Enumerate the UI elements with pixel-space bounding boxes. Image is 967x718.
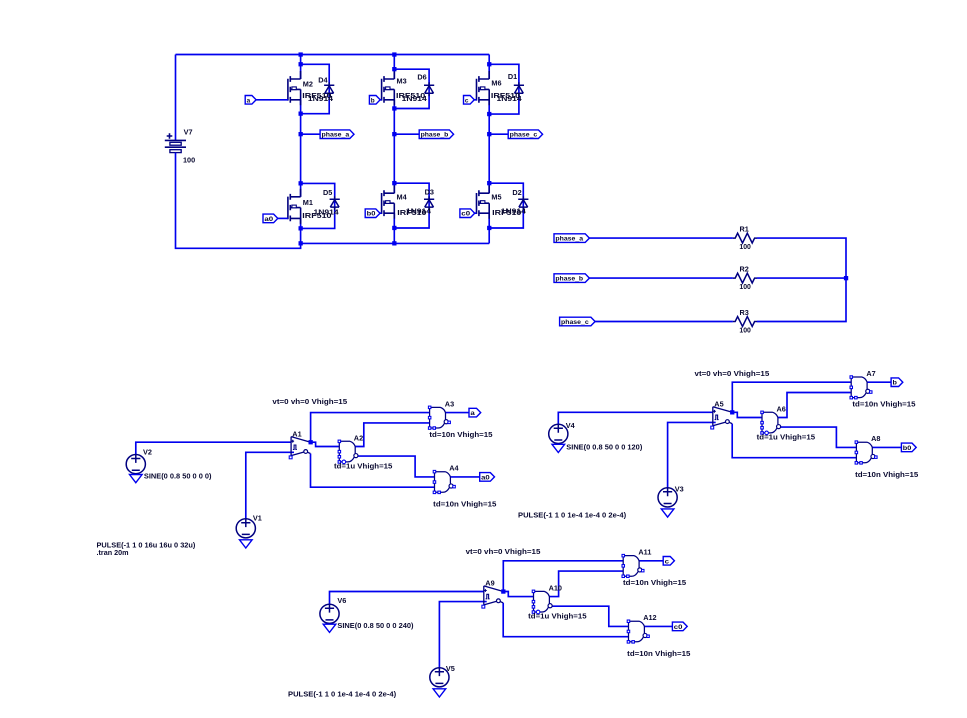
node b output flag (891, 378, 903, 387)
wire gate M4 (380, 212, 382, 214)
svg-text:phase_c: phase_c (510, 132, 538, 139)
node phase_a (320, 130, 354, 139)
transistor M5 (477, 185, 490, 219)
voltage source V6 (sine) (320, 604, 339, 623)
svg-text:A3: A3 (445, 399, 454, 408)
svg-text:PULSE(-1 1 0 1e-4 1e-4 0 2e-4): PULSE(-1 1 0 1e-4 1e-4 0 2e-4) (518, 510, 627, 519)
gate A8 (AND td=10n) (855, 441, 877, 464)
svg-text:D4: D4 (318, 76, 328, 85)
svg-text:V1: V1 (253, 513, 262, 522)
wire R3 to bus (757, 278, 846, 321)
transistor M2 (288, 71, 301, 105)
comparator A9 (schmitt) (482, 586, 503, 608)
wire phase_c (489, 133, 508, 135)
transistor M3 (382, 71, 395, 105)
svg-text:100: 100 (739, 282, 751, 291)
resistor R1 (733, 233, 757, 243)
svg-text:R3: R3 (740, 308, 749, 317)
wire A1 Qbar to A4 (311, 454, 435, 488)
junctions (487, 62, 491, 66)
svg-text:td=10n Vhigh=15: td=10n Vhigh=15 (623, 578, 686, 587)
resistor R2 (733, 273, 757, 283)
resistor R3 (733, 317, 757, 327)
svg-text:SINE(0 0.8 50 0 0 0): SINE(0 0.8 50 0 0 0) (144, 471, 212, 480)
svg-text:phase_b: phase_b (555, 276, 583, 283)
svg-text:D2: D2 (512, 188, 521, 197)
svg-text:M5: M5 (491, 192, 501, 201)
svg-text:D1: D1 (508, 72, 517, 81)
wire gate M3 (380, 99, 382, 101)
gate A4 (AND td=10n) (433, 470, 455, 493)
wire A12 Q to flag (644, 625, 672, 627)
svg-text:phase_a: phase_a (322, 132, 350, 139)
svg-text:M6: M6 (491, 79, 501, 88)
node a0 output flag (480, 473, 495, 482)
gate A7 (AND td=10n) (850, 376, 872, 399)
node a0 (gate input flag) (263, 214, 278, 223)
wire A3 Q to flag (446, 412, 470, 414)
junctions (392, 52, 396, 56)
gate A12 (AND td=10n) (627, 620, 649, 643)
node b0 output flag (901, 443, 916, 452)
wire A6 Q to A7 (778, 393, 851, 418)
node phase_c (508, 130, 542, 139)
wire diode loop D5 (301, 183, 335, 228)
svg-text:1N914: 1N914 (402, 94, 428, 103)
svg-text:A6: A6 (777, 404, 786, 413)
wire V4 to A5 +input (558, 412, 713, 424)
svg-text:td=10n Vhigh=15: td=10n Vhigh=15 (855, 470, 918, 479)
wire phase_c to R3 (595, 321, 733, 323)
svg-text:D6: D6 (417, 72, 426, 81)
svg-text:A10: A10 (549, 583, 562, 592)
svg-text:V2: V2 (143, 448, 152, 457)
svg-text:1N914: 1N914 (497, 94, 523, 103)
wire leg M6 column (488, 55, 490, 80)
svg-text:V7: V7 (184, 128, 193, 137)
ground (130, 475, 143, 483)
svg-text:1N914: 1N914 (501, 207, 527, 216)
svg-text:100: 100 (739, 325, 751, 334)
diode D1 (514, 82, 524, 96)
wire diode loop D1 (489, 64, 519, 114)
gate A6 (AND, buffer td=1u) (761, 411, 781, 435)
wire top rail (176, 54, 490, 56)
wire phase_b to R2 (589, 277, 733, 279)
diode D6 (424, 82, 434, 96)
wire diode loop D2 (489, 183, 523, 228)
wire A5 Q up to A7 (732, 382, 851, 412)
node phase_b (load) (554, 274, 589, 283)
gate A3 (AND td=10n) (428, 406, 450, 429)
svg-text:td=10n Vhigh=15: td=10n Vhigh=15 (433, 500, 496, 509)
node c output flag (663, 557, 674, 566)
svg-text:A7: A7 (866, 369, 875, 378)
wire leg M3 column (393, 55, 395, 80)
junction bus (844, 276, 848, 280)
node a (gate input flag) (245, 96, 256, 105)
transistor M1 (288, 189, 301, 224)
junctions (299, 52, 303, 56)
svg-text:a: a (247, 97, 251, 104)
svg-text:phase_a: phase_a (555, 236, 583, 243)
svg-text:V3: V3 (675, 484, 684, 493)
diode D4 (324, 82, 334, 96)
svg-text:td=10n Vhigh=15: td=10n Vhigh=15 (429, 430, 492, 439)
wire gate M1 (278, 217, 288, 219)
svg-text:td=10n Vhigh=15: td=10n Vhigh=15 (852, 400, 915, 409)
wire A1 Q to A2 (311, 442, 340, 446)
svg-text:R2: R2 (740, 264, 749, 273)
wire V1 to A1 -input (246, 452, 294, 519)
svg-text:100: 100 (739, 242, 751, 251)
svg-text:td=10n Vhigh=15: td=10n Vhigh=15 (627, 649, 690, 658)
svg-text:td=1u Vhigh=15: td=1u Vhigh=15 (528, 611, 586, 620)
wire leg M2 column (300, 55, 302, 80)
svg-text:M3: M3 (397, 77, 407, 86)
wire diode loop D6 (394, 69, 429, 108)
node c0 output flag (672, 622, 687, 631)
svg-text:A12: A12 (643, 613, 656, 622)
svg-text:b: b (371, 97, 375, 104)
wire V7 bottom (176, 153, 301, 249)
svg-text:vt=0 vh=0 Vhigh=15: vt=0 vh=0 Vhigh=15 (272, 397, 347, 406)
ground (661, 509, 674, 517)
svg-text:A11: A11 (638, 548, 651, 557)
comparator A5 (schmitt) (711, 407, 733, 429)
svg-text:SINE(0 0.8 50 0 0 120): SINE(0 0.8 50 0 0 120) (566, 442, 643, 451)
svg-text:M4: M4 (397, 192, 408, 201)
svg-text:PULSE(-1 1 0 1e-4 1e-4 0 2e-4): PULSE(-1 1 0 1e-4 1e-4 0 2e-4) (288, 689, 397, 698)
svg-text:c0: c0 (674, 624, 683, 631)
svg-text:M1: M1 (303, 198, 313, 207)
svg-text:.tran 20m: .tran 20m (97, 548, 129, 557)
svg-text:a0: a0 (264, 216, 273, 223)
svg-text:100: 100 (183, 155, 195, 164)
wire A10 Qbar to A12 (552, 606, 629, 626)
voltage source V5 (pulse) (430, 668, 449, 687)
wire phase_b (394, 133, 419, 135)
gate A10 (AND, buffer td=1u) (532, 590, 552, 614)
wire A1 Q up to A3 (311, 413, 430, 443)
node a output flag (469, 408, 481, 417)
node b0 (gate input flag) (365, 209, 380, 218)
transistor M4 (382, 185, 395, 219)
diode D3 (424, 196, 434, 210)
svg-text:A9: A9 (485, 579, 494, 588)
ground (240, 540, 253, 548)
svg-text:1N914: 1N914 (314, 208, 340, 217)
wire R2 to bus (757, 277, 846, 279)
wire V3 to A5 -input (668, 422, 716, 488)
svg-text:td=1u Vhigh=15: td=1u Vhigh=15 (334, 461, 392, 470)
wire diode loop D3 (394, 183, 429, 228)
svg-text:R1: R1 (740, 224, 749, 233)
ground (323, 624, 336, 632)
wire V2 to A1 +input (136, 442, 291, 454)
wire A9 Q to A10 (503, 592, 533, 597)
svg-text:M2: M2 (303, 80, 313, 89)
wire V6 to A9 +input (330, 592, 484, 605)
svg-text:V5: V5 (446, 664, 455, 673)
svg-text:A5: A5 (714, 399, 723, 408)
svg-text:a: a (470, 410, 475, 417)
svg-text:b: b (893, 380, 898, 387)
svg-text:c: c (665, 558, 670, 565)
comparator A1 (schmitt) (289, 437, 310, 459)
wire A7 Q to flag (867, 381, 891, 383)
wire phase_a (301, 133, 321, 135)
gate A2 (AND, buffer td=1u) (338, 440, 358, 464)
svg-text:c0: c0 (461, 211, 470, 218)
svg-text:b0: b0 (367, 211, 376, 218)
wire gate M2 (256, 99, 288, 101)
wire phase_a to R1 (589, 237, 733, 239)
voltage source V1 (pulse) (236, 519, 255, 538)
svg-text:b0: b0 (903, 445, 912, 452)
svg-text:A1: A1 (292, 430, 301, 439)
svg-text:1N914: 1N914 (308, 94, 334, 103)
wire A9 Qbar to A12 (503, 603, 628, 637)
wire A2 Q to A3 (355, 423, 429, 447)
svg-text:c: c (465, 97, 469, 104)
svg-text:vt=0 vh=0 Vhigh=15: vt=0 vh=0 Vhigh=15 (466, 547, 541, 556)
node c (gate input flag) (464, 96, 475, 105)
node phase_c (load) (560, 317, 596, 326)
svg-text:V4: V4 (566, 421, 576, 430)
svg-text:phase_c: phase_c (561, 319, 589, 326)
svg-text:1N914: 1N914 (406, 207, 432, 216)
svg-text:D3: D3 (425, 188, 434, 197)
svg-text:vt=0 vh=0 Vhigh=15: vt=0 vh=0 Vhigh=15 (695, 369, 770, 378)
ground (552, 444, 565, 452)
node b (gate input flag) (369, 96, 380, 105)
wire A11 Q to flag (639, 560, 663, 562)
wire V7 top (175, 55, 177, 141)
wire R1 to bus (757, 238, 846, 278)
svg-text:SINE(0 0.8 50 0 0 240): SINE(0 0.8 50 0 0 240) (337, 621, 414, 630)
wire gate M6 (474, 99, 477, 101)
gate A11 (AND td=10n) (622, 554, 644, 577)
voltage source V7 (battery) (165, 133, 186, 152)
wire diode loop D4 (301, 64, 330, 113)
diode D2 (518, 196, 528, 210)
wire V5 to A9 -input (439, 602, 486, 668)
svg-text:A2: A2 (354, 433, 363, 442)
svg-text:A4: A4 (449, 464, 459, 473)
voltage source V3 (pulse) (658, 488, 677, 507)
wire A9 Q up to A11 (503, 561, 623, 592)
voltage source V2 (sine) (126, 455, 145, 474)
wire A10 Q to A11 (549, 571, 623, 597)
voltage source V4 (sine) (549, 424, 568, 443)
transistor M6 (477, 71, 490, 105)
wire A2 Qbar to A4 (358, 456, 435, 477)
wire gate M5 (474, 212, 476, 214)
svg-text:a0: a0 (481, 474, 490, 481)
diode D5 (330, 196, 340, 210)
wire A5 Q to A6 (732, 412, 762, 417)
ground (433, 689, 446, 697)
node phase_b (419, 130, 453, 139)
wire A8 Q to flag (872, 446, 901, 448)
wire A6 Qbar to A8 (781, 427, 857, 447)
wire A4 Q to flag (450, 476, 479, 478)
wire A5 Qbar to A8 (732, 424, 856, 458)
svg-text:td=1u Vhigh=15: td=1u Vhigh=15 (757, 432, 815, 441)
svg-text:phase_b: phase_b (421, 132, 449, 139)
svg-text:A8: A8 (871, 434, 880, 443)
svg-text:D5: D5 (323, 188, 332, 197)
svg-text:V6: V6 (337, 596, 346, 605)
node c0 (gate input flag) (460, 209, 475, 218)
wire bottom rail (301, 242, 490, 244)
node phase_a (load) (554, 234, 589, 243)
